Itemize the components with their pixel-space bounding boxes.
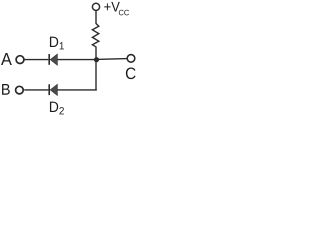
diode D2 triangle	[50, 84, 57, 95]
junction node dot	[94, 57, 99, 62]
label +VCC	[104, 2, 129, 16]
wire junction to C	[96, 58, 127, 61]
output terminal C	[127, 55, 135, 63]
input terminal A	[16, 56, 24, 64]
input terminal B	[16, 86, 24, 94]
diode D1 triangle	[50, 54, 57, 65]
wire A to D1	[24, 59, 48, 61]
label D2	[50, 102, 64, 115]
wire B to D2	[24, 89, 48, 91]
wire D2 to vertical riser	[57, 89, 96, 91]
wire VCC to resistor	[95, 10, 97, 24]
resistor R	[92, 24, 98, 47]
label D1	[50, 37, 64, 50]
diode D2 cathode bar	[48, 84, 50, 95]
wire resistor to junction	[95, 47, 97, 60]
label A	[1, 53, 12, 65]
power terminal +VCC	[92, 3, 99, 10]
label B	[2, 84, 10, 95]
vertical wire riser to junction	[95, 60, 97, 91]
label C	[126, 67, 136, 79]
wire D1 to junction	[57, 59, 96, 61]
diode D1 cathode bar	[48, 54, 50, 65]
